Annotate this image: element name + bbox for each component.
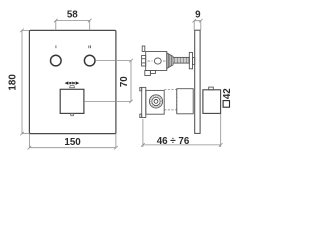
bottom valve: body bbox=[146, 90, 164, 114]
index mark above left knob bbox=[55, 45, 56, 48]
top valve: flange disc bbox=[189, 52, 192, 68]
index mark above right knob bbox=[88, 45, 89, 48]
dim square 42 bbox=[223, 101, 229, 108]
svg-text:46 ÷ 76: 46 ÷ 76 bbox=[157, 136, 190, 147]
square outlet bbox=[60, 89, 84, 113]
square handle bbox=[203, 90, 221, 114]
top valve: cone bbox=[167, 53, 173, 69]
dim 70 bbox=[84, 59, 133, 103]
side view wall plate bbox=[195, 30, 200, 133]
top valve: centerline dashes bbox=[148, 60, 167, 62]
svg-text:180: 180 bbox=[7, 74, 18, 91]
bottom valve: extension box bbox=[177, 89, 193, 114]
tick below square bbox=[70, 114, 74, 116]
knob left bbox=[51, 55, 62, 66]
top valve: body bbox=[146, 52, 167, 71]
bottom valve: hidden cartridge dashes bbox=[164, 89, 176, 114]
top valve: left nut bbox=[142, 56, 146, 67]
top valve: upper tab bbox=[142, 46, 145, 52]
svg-text:70: 70 bbox=[119, 76, 130, 87]
top valve: threaded stem bbox=[173, 57, 189, 63]
svg-text:42: 42 bbox=[222, 88, 233, 99]
handle button bbox=[209, 87, 214, 90]
tick above square bbox=[70, 86, 75, 88]
svg-text:9: 9 bbox=[195, 10, 201, 21]
top valve: lower ports bbox=[145, 71, 156, 76]
dim 58 bbox=[54, 19, 92, 31]
dim 9 bbox=[192, 19, 202, 30]
top valve: body circle bbox=[154, 58, 161, 64]
knob right bbox=[84, 55, 95, 66]
top valve: stub to plate bbox=[193, 58, 195, 65]
bottom valve: knurled knob circles bbox=[149, 95, 162, 108]
dim 46-76 bbox=[141, 114, 222, 147]
svg-text:150: 150 bbox=[64, 137, 81, 148]
front plate bbox=[29, 30, 116, 133]
bottom valve: left flange bbox=[140, 87, 146, 117]
svg-text:58: 58 bbox=[67, 9, 78, 20]
dim 150 bbox=[28, 134, 118, 150]
brand logo bbox=[65, 81, 80, 84]
dim 180 bbox=[20, 29, 29, 136]
